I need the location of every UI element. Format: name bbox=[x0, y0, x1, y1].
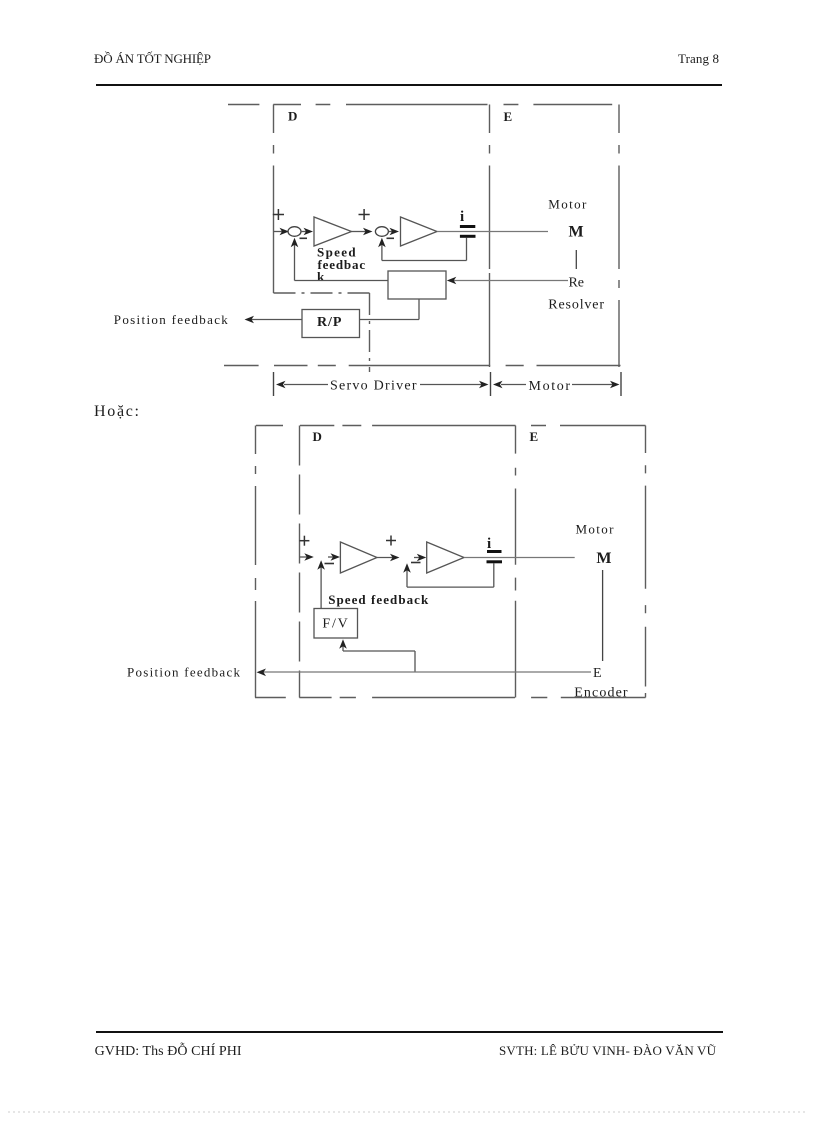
diagram1 wire sum2 to amp2 bbox=[389, 228, 400, 236]
diagram1 measure bar middle bbox=[490, 372, 492, 396]
diagram2 box E right dashed line bbox=[645, 426, 647, 698]
diagram1 wire M to Re bbox=[575, 250, 577, 269]
footer rule bbox=[96, 1031, 723, 1033]
diagram1 bottom dashed border bbox=[224, 365, 621, 367]
diagram2 bottom dashed border bbox=[255, 697, 646, 699]
diagram1 wire sensor down bbox=[466, 238, 468, 261]
svg-text:Resolver: Resolver bbox=[548, 298, 604, 313]
diagram1 output wire to motor bbox=[437, 231, 548, 233]
svg-text:SVTH: LÊ BỬU VINH- ĐÀO VĂN VŨ: SVTH: LÊ BỬU VINH- ĐÀO VĂN VŨ bbox=[499, 1043, 717, 1058]
diagram1 measure bar left bbox=[273, 372, 275, 396]
diagram2 current sensor top bar bbox=[487, 550, 502, 553]
svg-text:Hoặc:: Hoặc: bbox=[94, 403, 139, 420]
diagram2 speed feedback up arrow bbox=[317, 560, 325, 608]
svg-text:M: M bbox=[596, 550, 611, 567]
svg-text:k: k bbox=[317, 269, 325, 284]
diagram2 amplifier 2 bbox=[427, 542, 464, 573]
diagram1 amplifier 1 bbox=[314, 217, 352, 246]
diagram1 box D left dashed line bbox=[273, 105, 275, 294]
svg-text:F/V: F/V bbox=[322, 617, 347, 632]
diagram1 minus sign 2 bbox=[387, 237, 395, 239]
svg-text:Position feedback: Position feedback bbox=[127, 665, 241, 680]
diagram1 wire to RP box bbox=[360, 319, 420, 321]
diagram1 wire loop2 up arrow bbox=[378, 238, 386, 261]
diagram2 wire loop2 horizontal bbox=[407, 586, 494, 588]
diagram1 resolver converter box bbox=[388, 271, 446, 299]
diagram1 summing junction 1 bbox=[288, 227, 301, 237]
svg-text:Motor: Motor bbox=[548, 197, 587, 212]
diagram2 wire amp1 to sum2 bbox=[377, 554, 400, 562]
diagram1 speed feedback label bbox=[317, 245, 365, 285]
diagram2 top dashed border bbox=[256, 425, 646, 427]
diagram1 plus sign 2 bbox=[359, 209, 370, 220]
diagram2 minus sign 1 bbox=[325, 563, 335, 565]
diagram1 amplifier 2 bbox=[401, 217, 438, 246]
diagram1 wire sum1 to amp1 bbox=[301, 228, 313, 236]
diagram1 wire box to sum1 up arrow bbox=[291, 238, 299, 281]
diagram2 amplifier 1 bbox=[340, 542, 377, 573]
diagram2 plus sign 2 bbox=[386, 536, 396, 546]
diagram1 minus sign 1 bbox=[300, 237, 308, 239]
svg-text:feedbac: feedbac bbox=[318, 257, 366, 272]
diagram2 output wire to motor bbox=[464, 557, 575, 559]
diagram1 current sensor top bar bbox=[460, 225, 475, 228]
svg-text:Speed feedback: Speed feedback bbox=[328, 592, 429, 607]
diagram1 notch dash-dot horizontal bbox=[274, 292, 370, 294]
svg-text:R/P: R/P bbox=[317, 315, 342, 330]
diagram1 D/E boundary dashed line bbox=[489, 105, 491, 368]
diagram2 current sensor bottom bar bbox=[487, 560, 503, 563]
svg-text:GVHD: Ths ĐỖ CHÍ PHI: GVHD: Ths ĐỖ CHÍ PHI bbox=[95, 1041, 242, 1059]
diagram2 wire sum1 to amp1 bbox=[328, 553, 340, 561]
svg-text:Trang 8: Trang 8 bbox=[678, 51, 719, 66]
diagram2 loop2 up arrow bbox=[403, 563, 411, 587]
diagram1 top dashed border bbox=[228, 104, 612, 106]
diagram1 box E right dashed line bbox=[618, 105, 620, 368]
diagram1 measure arrow motor left bbox=[493, 381, 526, 389]
diagram2 wire sensor down bbox=[493, 563, 495, 587]
diagram2 box D left dashed line bbox=[299, 426, 301, 698]
svg-text:M: M bbox=[569, 224, 584, 241]
svg-text:D: D bbox=[288, 109, 297, 124]
svg-text:E: E bbox=[530, 429, 539, 444]
diagram1 summing junction 2 bbox=[375, 227, 388, 237]
diagram2 wire into FV bottom up arrow bbox=[339, 639, 347, 651]
page bottom dotted line bbox=[8, 1111, 808, 1113]
diagram2 wire sum2 to amp2 bbox=[414, 554, 426, 562]
svg-text:i: i bbox=[460, 209, 464, 225]
svg-text:i: i bbox=[487, 536, 491, 552]
diagram1 notch dash-dot vertical bbox=[369, 293, 371, 372]
diagram1 measure arrow servo left bbox=[276, 381, 328, 389]
diagram2 wire elbow down bbox=[414, 651, 416, 672]
diagram1 R/P box bbox=[302, 310, 360, 338]
svg-text:ĐỒ ÁN TỐT NGHIỆP: ĐỒ ÁN TỐT NGHIỆP bbox=[94, 51, 211, 66]
diagram2 wire M to E bbox=[602, 570, 604, 661]
svg-text:E: E bbox=[504, 109, 513, 124]
diagram2 outer left dashed line bbox=[255, 426, 257, 698]
diagram2 F/V box bbox=[314, 609, 358, 639]
svg-text:Motor: Motor bbox=[529, 379, 571, 394]
svg-text:Re: Re bbox=[569, 276, 585, 291]
diagram1 position feedback arrow bbox=[245, 316, 303, 324]
diagram1 input wire arrow bbox=[274, 228, 290, 236]
svg-text:E: E bbox=[593, 666, 602, 681]
diagram1 current sensor bottom bar bbox=[460, 235, 476, 238]
svg-text:Position feedback: Position feedback bbox=[114, 312, 229, 327]
diagram2 input wire arrow bbox=[300, 553, 314, 561]
svg-text:Motor: Motor bbox=[576, 522, 615, 537]
diagram1 measure bar right bbox=[620, 372, 622, 396]
diagram1 wire resolver to box bbox=[447, 277, 568, 285]
svg-text:Servo Driver: Servo Driver bbox=[330, 379, 417, 394]
diagram1 wire box down bbox=[418, 299, 420, 320]
svg-text:D: D bbox=[313, 429, 322, 444]
diagram1 wire amp1 to sum2 bbox=[352, 228, 373, 236]
header rule bbox=[96, 84, 722, 86]
diagram2 plus sign 1 bbox=[299, 536, 309, 546]
diagram1 measure arrow servo right bbox=[420, 381, 489, 389]
diagram2 minus sign 2 bbox=[411, 562, 421, 564]
diagram1 plus sign 1 bbox=[273, 209, 284, 220]
diagram1 wire loop2 horizontal bbox=[382, 260, 467, 262]
diagram2 wire elbow horizontal bbox=[343, 650, 415, 652]
diagram2 box D right dashed line bbox=[515, 426, 517, 698]
diagram2 position feedback wire arrow bbox=[257, 669, 592, 677]
diagram1 wire box to sum1 horizontal bbox=[295, 280, 389, 282]
svg-text:Encoder: Encoder bbox=[574, 686, 628, 701]
diagram1 measure arrow motor right bbox=[572, 381, 620, 389]
